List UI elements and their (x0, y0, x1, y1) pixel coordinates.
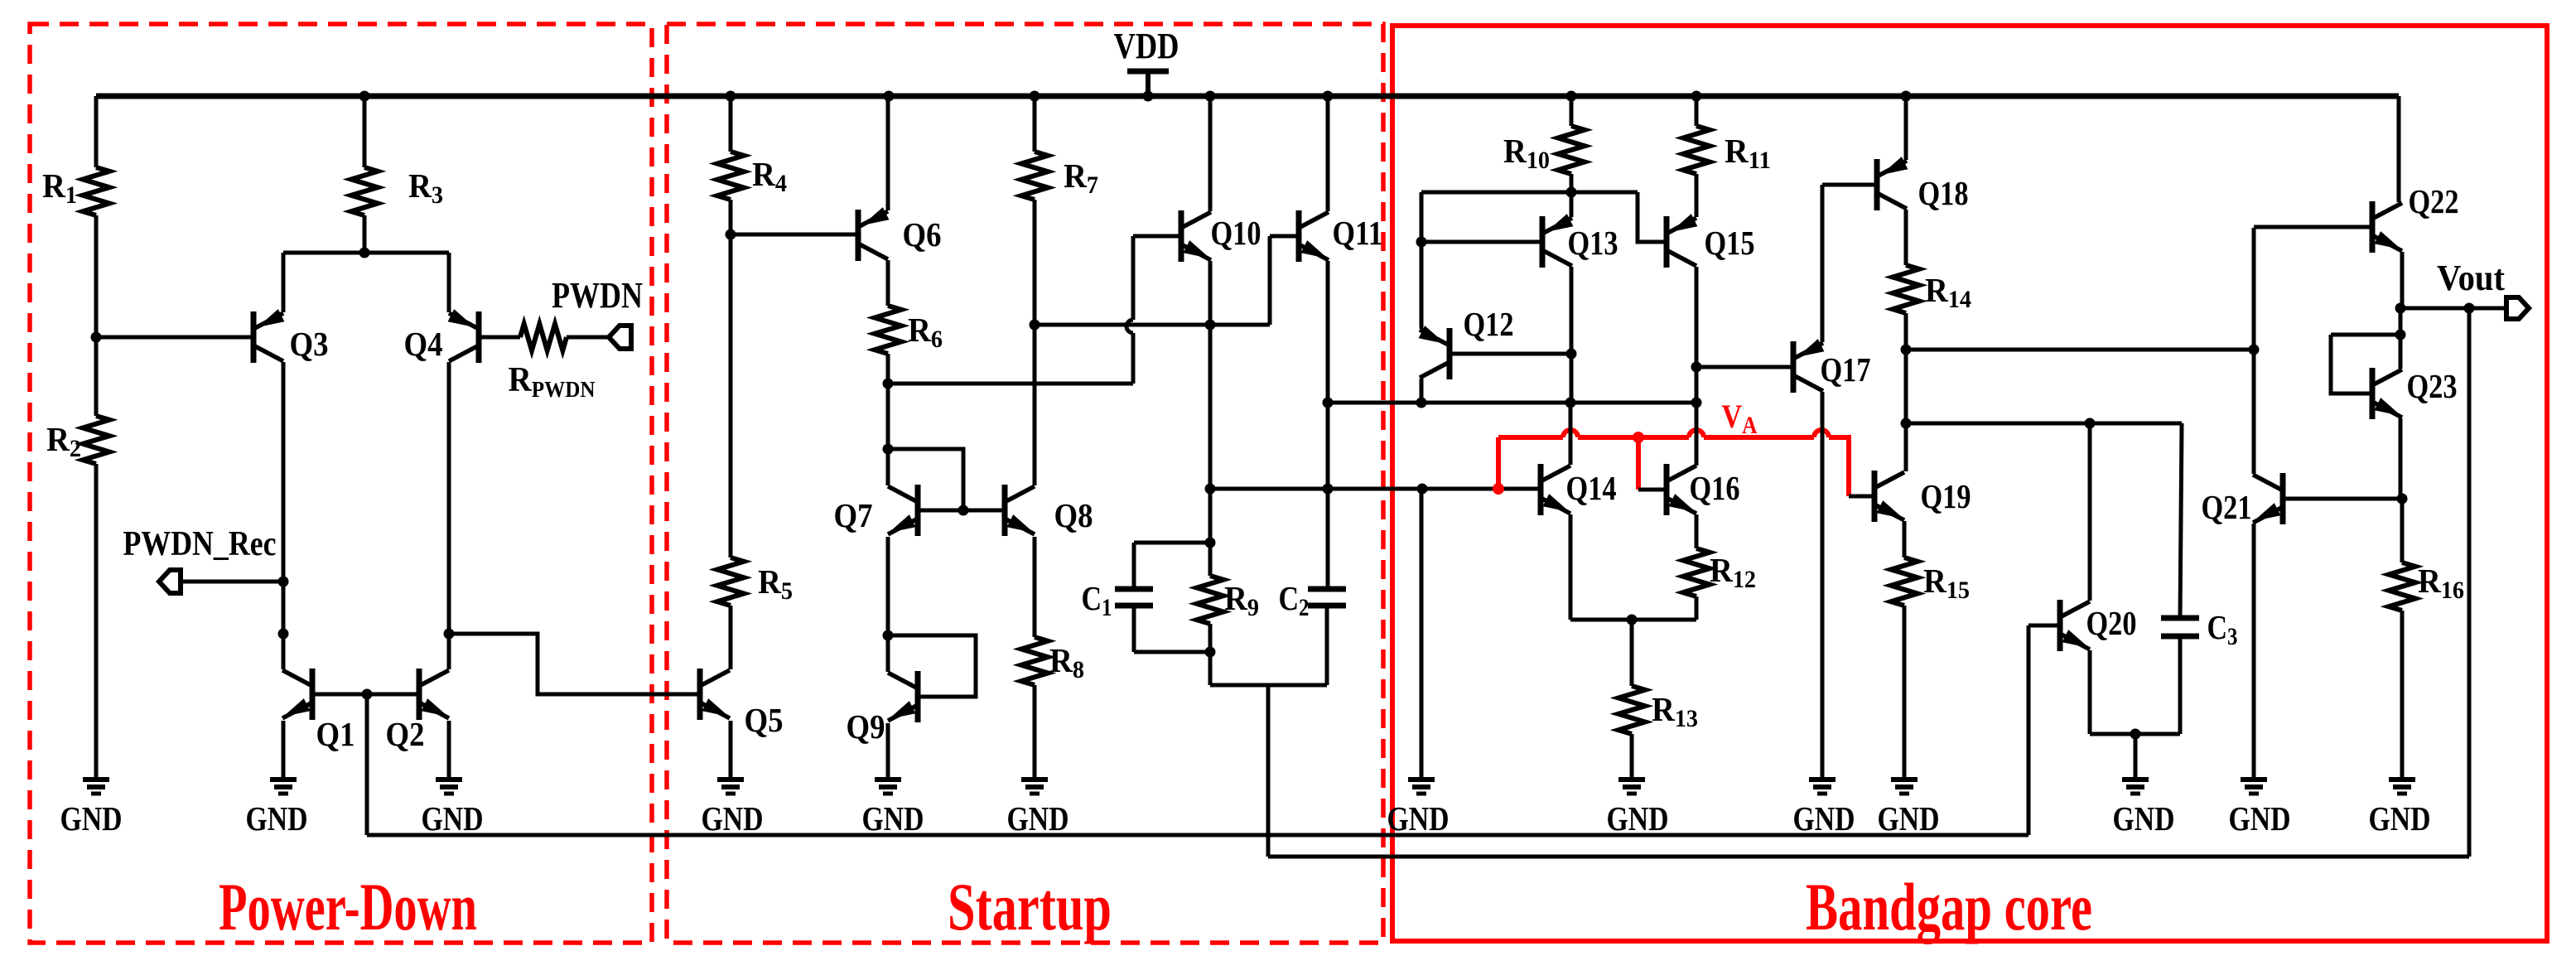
svg-text:Power-Down: Power-Down (219, 869, 477, 944)
svg-text:Q11: Q11 (1333, 214, 1383, 252)
svg-text:R1: R1 (42, 167, 77, 209)
svg-text:Q20: Q20 (2086, 604, 2137, 642)
svg-text:Q8: Q8 (1054, 496, 1093, 534)
svg-text:R3: R3 (408, 167, 443, 209)
svg-text:GND: GND (1387, 799, 1450, 838)
svg-text:Q14: Q14 (1566, 469, 1617, 507)
svg-text:GND: GND (1007, 799, 1069, 838)
svg-text:GND: GND (702, 799, 764, 838)
svg-text:GND: GND (1607, 799, 1669, 838)
svg-text:Q5: Q5 (745, 701, 784, 739)
svg-text:Q2: Q2 (386, 715, 425, 753)
svg-text:PWDN_Rec: PWDN_Rec (123, 525, 277, 563)
svg-text:Vout: Vout (2437, 258, 2505, 298)
svg-text:Q9: Q9 (847, 707, 885, 746)
svg-text:GND: GND (246, 799, 308, 838)
svg-text:Q4: Q4 (404, 325, 443, 363)
svg-text:R15: R15 (1923, 562, 1970, 604)
svg-text:R12: R12 (1710, 551, 1756, 593)
svg-text:Q13: Q13 (1568, 224, 1618, 262)
svg-text:R6: R6 (908, 311, 943, 353)
svg-text:Startup: Startup (948, 869, 1112, 944)
svg-text:R11: R11 (1725, 132, 1771, 174)
svg-text:RPWDN: RPWDN (509, 361, 596, 402)
svg-text:C3: C3 (2207, 608, 2238, 650)
svg-text:Q17: Q17 (1821, 350, 1871, 389)
svg-text:Q6: Q6 (903, 215, 942, 253)
svg-text:Q19: Q19 (1921, 477, 1971, 515)
svg-text:R13: R13 (1652, 690, 1698, 732)
svg-text:R14: R14 (1925, 271, 1971, 313)
svg-text:R16: R16 (2418, 562, 2464, 604)
svg-text:VA: VA (1722, 398, 1758, 439)
svg-text:R4: R4 (752, 155, 787, 197)
svg-text:C2: C2 (1279, 579, 1310, 621)
svg-text:Q22: Q22 (2409, 182, 2459, 220)
svg-text:Q12: Q12 (1464, 305, 1514, 343)
svg-text:R8: R8 (1049, 641, 1084, 683)
svg-text:Q21: Q21 (2202, 488, 2252, 526)
svg-text:GND: GND (2369, 799, 2431, 838)
svg-text:Q18: Q18 (1918, 174, 1969, 212)
svg-text:R5: R5 (758, 562, 793, 605)
svg-text:Q10: Q10 (1211, 214, 1261, 252)
svg-text:GND: GND (2113, 799, 2175, 838)
svg-text:R2: R2 (46, 420, 81, 462)
svg-text:C1: C1 (1082, 579, 1112, 621)
svg-text:GND: GND (1878, 799, 1940, 838)
svg-text:Q23: Q23 (2407, 367, 2458, 405)
svg-text:Q16: Q16 (1690, 469, 1740, 507)
svg-text:Q1: Q1 (316, 715, 355, 753)
svg-text:GND: GND (60, 799, 123, 838)
svg-text:Bandgap core: Bandgap core (1806, 869, 2092, 944)
svg-text:Q15: Q15 (1705, 224, 1755, 262)
svg-text:R7: R7 (1064, 157, 1098, 199)
svg-text:Q3: Q3 (290, 325, 329, 363)
svg-text:VDD: VDD (1114, 26, 1179, 66)
svg-text:GND: GND (2229, 799, 2291, 838)
svg-text:GND: GND (862, 799, 924, 838)
svg-text:PWDN: PWDN (552, 275, 643, 316)
svg-text:R9: R9 (1224, 579, 1259, 621)
svg-text:GND: GND (1793, 799, 1855, 838)
svg-text:GND: GND (422, 799, 484, 838)
svg-text:R10: R10 (1503, 132, 1550, 174)
svg-text:Q7: Q7 (834, 496, 873, 534)
